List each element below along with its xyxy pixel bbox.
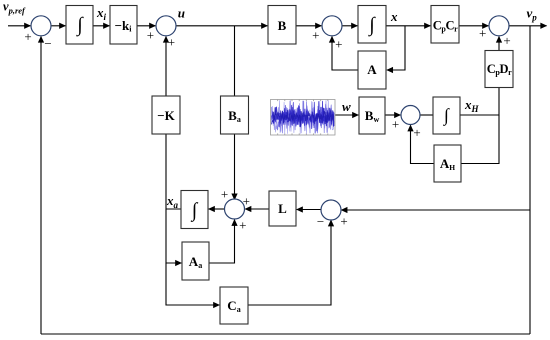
wire xa down to Aa	[166, 209, 181, 263]
wire x: INT2 to CpCr	[386, 25, 430, 27]
wire L to S6	[245, 208, 269, 210]
wire S7 to L	[297, 209, 322, 211]
svg-text:+: +	[392, 116, 399, 131]
svg-text:+: +	[243, 193, 250, 208]
wire u: S2 to B	[176, 25, 267, 27]
wire noise w to Bw	[335, 114, 358, 116]
wire INT1 to -ki	[93, 25, 109, 27]
svg-text:+: +	[147, 27, 154, 42]
block -K	[152, 96, 180, 134]
wire -K up to S2	[165, 37, 167, 97]
noise plot frame	[271, 100, 336, 136]
summing junction S4	[489, 16, 509, 36]
wire B to S3	[296, 25, 321, 27]
wire vp output	[509, 25, 547, 27]
block CpDr	[485, 51, 513, 88]
svg-text:x: x	[390, 9, 398, 24]
wire S1 to integrator INT1	[51, 25, 65, 27]
wire vp feedback to S7	[341, 209, 530, 211]
wire xa down to Ca	[166, 263, 219, 305]
summing junction S1	[31, 16, 51, 36]
wire S6 to INT4	[209, 208, 225, 210]
block Bw	[359, 97, 385, 134]
wire Ba down to S6	[234, 134, 236, 200]
block INT2 integrator	[358, 6, 386, 44]
wire xH down to AH	[462, 115, 500, 164]
block L	[269, 191, 296, 226]
svg-text:vp,ref: vp,ref	[3, 0, 26, 16]
block CpCr	[431, 6, 459, 44]
block Ca	[220, 287, 248, 324]
block INT3 integrator	[433, 97, 460, 134]
svg-text:B: B	[278, 18, 287, 33]
svg-text:+: +	[312, 28, 319, 43]
svg-text:+: +	[479, 26, 486, 41]
svg-text:−: −	[317, 214, 324, 229]
svg-text:+: +	[221, 186, 228, 201]
summing junction S3	[322, 16, 342, 36]
block INT4 integrator	[181, 191, 208, 229]
wire xH to CpDr bottom	[460, 88, 499, 116]
wire CpDr up to S4	[498, 37, 500, 51]
wire branch u down to Ba	[234, 26, 236, 96]
svg-text:+: +	[413, 125, 420, 140]
block -ki	[110, 6, 137, 45]
wire branch x down to A	[387, 26, 405, 70]
wire AH out to S5	[411, 125, 435, 163]
svg-text:−: −	[44, 36, 51, 51]
summing junction S5	[401, 106, 420, 125]
wire Aa out up to S6	[209, 220, 235, 263]
svg-text:vp: vp	[527, 6, 538, 23]
svg-text:+: +	[335, 36, 342, 51]
wire vp,ref input	[8, 25, 30, 27]
block AH	[434, 145, 461, 182]
svg-text:+: +	[503, 33, 510, 48]
block A	[358, 51, 386, 89]
svg-text:+: +	[239, 218, 246, 233]
block Ba	[221, 96, 249, 134]
wire xa vertical: INT4 out to -K and down	[166, 134, 181, 209]
svg-text:−K: −K	[157, 108, 175, 123]
svg-text:xi: xi	[96, 5, 107, 22]
svg-text:u: u	[178, 6, 185, 21]
wire S3 to INT2	[342, 25, 357, 27]
svg-text:+: +	[24, 29, 31, 44]
summing junction S2	[156, 16, 176, 36]
wire CpCr to S4	[459, 25, 488, 27]
wire -ki to S2	[137, 25, 155, 27]
svg-text:+: +	[168, 34, 175, 49]
summing junction S6	[225, 199, 245, 219]
wire left feedback up to S1	[40, 37, 42, 335]
svg-text:+: +	[340, 214, 347, 229]
block INT1 integrator	[66, 6, 93, 45]
svg-text:L: L	[278, 201, 287, 216]
wire S5 to INT3	[420, 114, 433, 116]
block B	[268, 6, 296, 45]
svg-text:xH: xH	[464, 97, 480, 114]
noise plot signal	[272, 101, 335, 134]
wire A out up to S3	[332, 37, 358, 71]
svg-text:xa: xa	[166, 193, 179, 210]
wire Bw to S5	[385, 114, 400, 116]
wire Ca out up to S7	[248, 220, 331, 305]
svg-text:w: w	[342, 99, 351, 114]
svg-text:A: A	[367, 62, 377, 77]
block Aa	[182, 242, 209, 280]
summing junction S7	[321, 200, 341, 220]
wire bottom feedback	[41, 333, 530, 335]
wire vp feedback vertical right	[529, 26, 531, 334]
